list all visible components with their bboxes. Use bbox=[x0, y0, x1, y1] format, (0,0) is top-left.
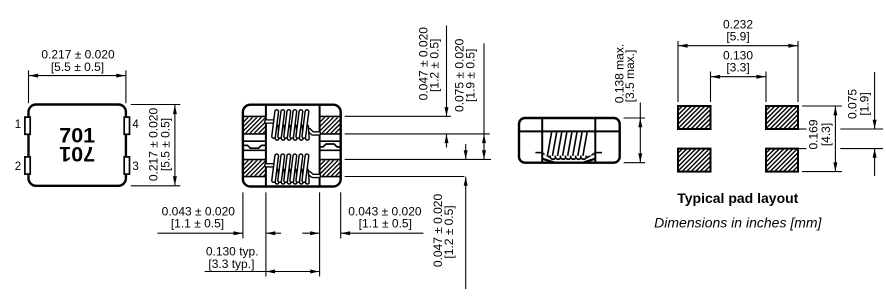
svg-text:[1.2 ± 0.5]: [1.2 ± 0.5] bbox=[442, 205, 456, 258]
dimension 0.047 lower: stems and arrows bbox=[465, 144, 467, 159]
side view division left bbox=[541, 118, 543, 163]
dimension 0.130 pads: dim line and arrows bbox=[711, 76, 766, 78]
dimension 0.217 right: extension lines bbox=[131, 104, 181, 106]
dimension 0.130 typ: line and arrows bbox=[205, 271, 320, 273]
svg-text:[4.3]: [4.3] bbox=[819, 123, 833, 146]
pad layout right extension lines bbox=[802, 105, 842, 107]
svg-text:[3.3]: [3.3] bbox=[726, 61, 749, 75]
svg-text:4: 4 bbox=[132, 119, 139, 131]
svg-text:[3.3 typ.]: [3.3 typ.] bbox=[208, 257, 254, 271]
dimension 0.047 upper: stems and arrows bbox=[446, 26, 448, 116]
svg-text:[1.9 ± 0.5]: [1.9 ± 0.5] bbox=[464, 49, 478, 102]
dimension 0.075: stem and arrows bbox=[483, 43, 485, 159]
side view core top line bbox=[520, 130, 620, 132]
right terminal pad edge lines bbox=[319, 115, 340, 117]
dimension 0.075: stems and arrows bbox=[874, 72, 876, 129]
dimension 0.232: dim line and arrows bbox=[678, 45, 797, 47]
dimension 0.217 top: dim line bbox=[29, 75, 126, 77]
extension line pad2 top bbox=[345, 158, 491, 160]
dimension 0.217 top: extension lines bbox=[28, 70, 30, 103]
dimension 0.138: extension lines bbox=[624, 117, 645, 119]
extension line pad1 bottom bbox=[345, 133, 490, 135]
svg-text:1: 1 bbox=[15, 119, 21, 131]
svg-text:[1.1 ± 0.5]: [1.1 ± 0.5] bbox=[171, 216, 224, 230]
left terminal pad edge lines bbox=[243, 115, 266, 117]
winding 1 (top coil) bbox=[266, 112, 319, 139]
dimension 0.130 pads: extension lines bbox=[710, 72, 712, 103]
winding 2 (bottom coil) bbox=[266, 156, 319, 182]
svg-text:Typical pad layout: Typical pad layout bbox=[677, 190, 798, 206]
pin 4 bbox=[124, 117, 129, 134]
svg-text:3: 3 bbox=[132, 161, 138, 173]
choke body side view outline bbox=[519, 118, 620, 163]
dimension 0.217 right: dim line bbox=[174, 105, 176, 185]
dimension 0.043 left: line and arrows bbox=[158, 232, 243, 234]
side view division right bbox=[594, 118, 596, 163]
left terminal crimp mark bbox=[243, 140, 266, 142]
extension line body right edge bbox=[340, 192, 342, 238]
choke body winding view outline bbox=[243, 105, 341, 187]
dimension 0.043 right: line and arrows bbox=[302, 232, 319, 234]
svg-text:701: 701 bbox=[59, 142, 95, 166]
extension line division right bbox=[319, 192, 321, 276]
extension line body left edge bbox=[242, 192, 244, 238]
extension line division left bbox=[265, 192, 267, 276]
svg-text:[5.5 ± 0.5]: [5.5 ± 0.5] bbox=[159, 118, 173, 171]
dimension 0.232: extension lines bbox=[677, 41, 679, 102]
terminal division line left bbox=[265, 105, 267, 187]
dimension 0.169: dim line and arrows bbox=[834, 106, 836, 171]
pin 3 bbox=[124, 157, 129, 174]
dimension 0.138: stem and arrows bbox=[639, 103, 641, 163]
pin 1 bbox=[25, 117, 30, 134]
svg-text:[1.2 ± 0.5]: [1.2 ± 0.5] bbox=[428, 39, 442, 92]
terminal division line right bbox=[319, 105, 321, 187]
pin 2 bbox=[25, 157, 30, 174]
svg-text:[1.9]: [1.9] bbox=[858, 92, 872, 115]
extension line pad2 bottom bbox=[345, 176, 465, 178]
svg-text:2: 2 bbox=[15, 161, 21, 173]
side view winding bbox=[535, 132, 602, 162]
svg-text:[3.5 max.]: [3.5 max.] bbox=[623, 50, 637, 103]
svg-text:Dimensions in inches [mm]: Dimensions in inches [mm] bbox=[654, 214, 822, 230]
choke body top view (marked) bbox=[29, 105, 126, 186]
svg-text:[5.9]: [5.9] bbox=[726, 29, 749, 43]
svg-text:[5.5 ± 0.5]: [5.5 ± 0.5] bbox=[51, 60, 104, 74]
extension line pad1 top bbox=[345, 115, 451, 117]
svg-text:[1.1 ± 0.5]: [1.1 ± 0.5] bbox=[359, 216, 412, 230]
right terminal crimp mark bbox=[319, 140, 340, 142]
